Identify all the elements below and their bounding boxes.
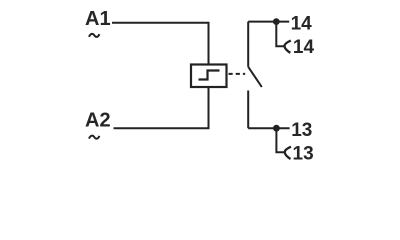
svg-text:13: 13 <box>293 143 314 164</box>
svg-text:13: 13 <box>291 120 312 141</box>
svg-text:14: 14 <box>293 37 315 58</box>
svg-text:A2: A2 <box>85 110 111 132</box>
svg-text:14: 14 <box>291 13 313 34</box>
svg-text:A1: A1 <box>85 8 111 30</box>
